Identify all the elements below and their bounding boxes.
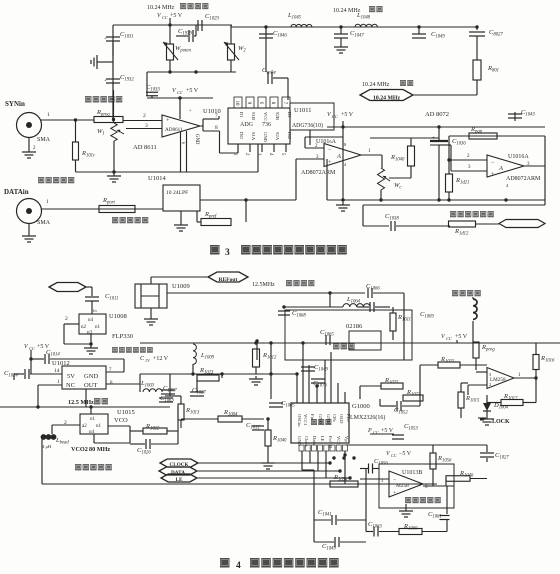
label Rpref [204, 211, 217, 220]
label Cspike [262, 67, 276, 76]
label R1060 [403, 523, 418, 532]
wire R101c bot [75, 160, 77, 172]
wire column x113 upper [113, 90, 115, 123]
pin name S2B [275, 112, 280, 120]
pin1 label data [46, 199, 49, 205]
wire loop left [362, 205, 364, 226]
wire r1014 right [242, 418, 264, 420]
LED D1004 [483, 395, 491, 416]
connector DATAin BNC [17, 199, 42, 224]
wire C8027 to R801 [476, 36, 478, 60]
wire DATA to LPF [41, 208, 163, 210]
capacitor C1024 [25, 369, 29, 379]
label C1053 [404, 423, 418, 432]
wire right col down [123, 359, 125, 372]
label 10.24MHz input [362, 82, 390, 88]
pin box 6 top [258, 97, 266, 108]
wire v5 column [342, 127, 344, 200]
pin name bottom 1 G1000 [297, 436, 302, 447]
op-amp U1016A [487, 155, 524, 178]
svg-text:5V: 5V [67, 373, 75, 380]
ground DATAin [22, 233, 36, 242]
ground fig3 left [107, 173, 121, 182]
svg-text:−5 V: −5 V [399, 451, 412, 457]
wire cluster a [366, 531, 373, 533]
label ADG 736 [240, 122, 271, 128]
wire chip bot right [344, 451, 346, 484]
wire col271 [270, 343, 272, 399]
svg-text:DATAin: DATAin [4, 188, 29, 196]
wire minus input [126, 128, 162, 130]
wire lm in2 [468, 384, 487, 386]
wire ref line a [167, 292, 365, 294]
label pin4 [344, 162, 347, 167]
wire rail above vco [0, 406, 170, 408]
wire Vcc to top rail [169, 18, 171, 25]
wire SYN gnd lead [28, 138, 30, 149]
label pin2 left [315, 144, 318, 149]
label U1014 [148, 175, 166, 182]
pin name bottom IN2 [287, 132, 292, 140]
svg-text:LE: LE [176, 477, 183, 483]
callout DATA [159, 467, 197, 476]
svg-text:REFout: REFout [219, 277, 238, 283]
svg-text:1: 1 [47, 112, 50, 118]
label raised-cosine CJK [112, 217, 148, 223]
svg-text:n2: n2 [81, 325, 87, 330]
junction cap bottom2 [447, 198, 450, 201]
junction u1008 gnd [89, 342, 92, 345]
IC U1012 body [62, 366, 106, 389]
wire C1979 drop [195, 25, 197, 36]
op-amp U1016B [324, 144, 361, 167]
capacitor C1049b [335, 537, 339, 547]
resistor R1023 [197, 375, 219, 381]
wire l1064 left col [329, 293, 331, 307]
wire u1013 out [423, 485, 454, 487]
wire r1013 top link [180, 396, 182, 404]
label phase-detector CJK [311, 419, 331, 425]
label pin8 [344, 142, 347, 147]
IC U1011 box [290, 103, 334, 130]
wire opamp gnd b [186, 131, 188, 172]
wire u1013 in [360, 478, 389, 480]
potentiometer W1 [111, 123, 117, 141]
label R1014 [223, 409, 238, 418]
pin name bottom 4 G1000 [320, 436, 325, 442]
capacitor Cspike [268, 72, 272, 84]
svg-text:02186: 02186 [346, 323, 363, 330]
label Vcc +5V lm258 [441, 334, 468, 341]
wire c1027r down [486, 458, 488, 462]
capacitor C1052 [397, 401, 401, 411]
svg-text:VCC: VCC [336, 436, 341, 445]
label C1047 [350, 30, 364, 39]
wire c1024 stub [13, 374, 15, 380]
label C1027r [495, 452, 509, 461]
pin name bottom 7 G1000 [344, 436, 349, 442]
callout blank top-left [49, 283, 86, 292]
label C1066 [366, 283, 380, 292]
wire LPF out [200, 199, 296, 201]
caption fig3 num [225, 248, 230, 258]
wire u1012 out [106, 383, 140, 385]
wire R801 to hex [413, 94, 477, 96]
wire vco top pin [90, 407, 92, 414]
wire top rail [113, 24, 196, 26]
svg-text:1: 1 [46, 199, 49, 205]
label R801 [487, 65, 499, 74]
svg-text:AD8072ARM: AD8072ARM [506, 176, 541, 182]
op-amp U1016B feedback loop [305, 137, 343, 148]
label SYNin [5, 100, 25, 108]
pin 1 label [47, 112, 50, 118]
svg-text:U1012: U1012 [52, 360, 70, 367]
label filter CJK [369, 6, 383, 12]
label U1015 [117, 409, 135, 416]
label pin7 [215, 113, 218, 119]
svg-text:12.5 MHz: 12.5 MHz [68, 399, 94, 406]
wire chip bot clock [310, 451, 330, 463]
wire row445 [346, 444, 487, 446]
svg-text:A: A [498, 165, 503, 172]
pin stub 3 bottom [256, 144, 262, 156]
label R1027 [406, 389, 421, 398]
wire left column [112, 25, 114, 120]
label pin2 vco [64, 420, 67, 426]
pin name top 7 G1000 [339, 414, 344, 424]
pin name bottom 6 G1000 [336, 436, 341, 445]
svg-text:U1011: U1011 [294, 107, 311, 114]
svg-text:GND: GND [194, 134, 199, 145]
wire long bottom fb [42, 483, 437, 485]
wire c1041 l [314, 519, 331, 521]
label W1 [97, 128, 105, 137]
svg-text:S1B: S1B [251, 112, 256, 120]
wire r1015 up [460, 383, 462, 392]
pin box 7 top [282, 97, 290, 108]
lock gnd mark [478, 418, 486, 420]
label R1012m [262, 352, 277, 361]
wire r1056 down [432, 469, 434, 486]
svg-text:GND: GND [263, 132, 268, 143]
svg-text:CC: CC [332, 114, 338, 119]
ground R1012 [249, 376, 263, 385]
pot W1 arrow [117, 130, 124, 134]
resistor R1025r [438, 362, 460, 368]
junction filter c3 [417, 25, 420, 28]
potentiometer Wpoten [163, 42, 178, 60]
svg-text:+5 V: +5 V [170, 13, 183, 19]
svg-text:2: 2 [143, 113, 146, 119]
wire input2 [449, 159, 487, 161]
label L1045 [287, 12, 302, 21]
label G1000 [352, 403, 370, 410]
capacitor C1026 [146, 439, 150, 449]
pin name top 2 G1000 [303, 414, 308, 426]
wire v5 stub [342, 121, 344, 127]
wire ref right col [403, 293, 405, 313]
wire cluster col r2 [446, 520, 448, 532]
wire c1067 right [375, 306, 390, 308]
wire chip top d [316, 386, 318, 403]
wire cluster col a [169, 374, 171, 396]
wire R1040 to wiper [389, 177, 411, 179]
ground r1040m [261, 460, 275, 469]
resistor R1021 [446, 174, 453, 192]
label R1025r [440, 356, 455, 365]
resistor Rport [99, 206, 135, 213]
svg-text:G1000: G1000 [352, 403, 370, 410]
label Wpoten [175, 45, 191, 54]
capacitor C1049f [412, 34, 426, 38]
label output bandpass CJK [112, 347, 153, 353]
wire c1056 l [360, 468, 368, 470]
junction mid374 b [220, 372, 223, 375]
junction mid rail 2 [194, 70, 197, 73]
label Cnode [0, 0, 1, 1]
svg-text:FLo: FLo [346, 414, 351, 422]
ground filter [334, 44, 348, 53]
wire right col 404 [403, 313, 405, 360]
wire bead down [41, 437, 43, 484]
label Rpqp [470, 126, 483, 135]
wire lm in3 [476, 371, 487, 373]
svg-text:LM258: LM258 [490, 377, 506, 383]
pin name top 4 G1000 [318, 414, 323, 425]
svg-text:4 μH: 4 μH [42, 444, 52, 449]
wire c1024 left [14, 373, 24, 375]
pin name bottom S1A [251, 132, 256, 141]
svg-text:S1A: S1A [251, 132, 256, 141]
svg-text:+: + [104, 79, 107, 84]
resistor Rpqp [469, 133, 497, 139]
label Rprog2 [481, 344, 495, 353]
wire Wpoten bottom [169, 60, 171, 72]
label U1008 [109, 313, 127, 320]
label DATAin [4, 188, 29, 196]
label R1017 [503, 393, 518, 402]
label U1010 [203, 108, 221, 115]
label amplifier CJK [333, 343, 355, 349]
pin name D2 [287, 112, 292, 118]
wire c1043 col [514, 112, 516, 121]
pin number strip G1000 [299, 445, 347, 451]
label D1004 [493, 402, 509, 411]
svg-text:U1010: U1010 [203, 108, 221, 115]
svg-text:OUT: OUT [84, 382, 97, 389]
svg-text:3: 3 [225, 248, 230, 258]
wire +5V top [147, 97, 213, 99]
wire data line [197, 470, 340, 472]
label Rport [102, 197, 115, 206]
junction data [338, 469, 341, 472]
wire lock col top [472, 297, 474, 299]
wire R801 down [476, 80, 478, 95]
label R1025b [384, 377, 399, 386]
svg-text:VCO: VCO [114, 417, 128, 424]
pin box 10 top [234, 97, 242, 108]
label VCO [114, 417, 128, 424]
wire fig3 left rail [76, 171, 259, 173]
svg-text:Data: Data [312, 436, 317, 445]
capacitor C1061 [440, 516, 450, 520]
wire cluster col l [365, 468, 367, 532]
capacitor C1005m [269, 403, 283, 407]
label Vcc +5V (top) [157, 13, 183, 20]
wire r1025 right [460, 364, 487, 366]
pin name top 5 G1000 [326, 414, 331, 425]
capacitor C1068 [278, 311, 290, 315]
svg-text:LE: LE [320, 436, 325, 442]
label Vcc +5V (mid) [172, 88, 199, 95]
junction chip top d [315, 384, 318, 387]
ground LPF [174, 222, 188, 231]
svg-text:n1: n1 [96, 424, 102, 429]
wire cluster link [165, 395, 181, 397]
label C1031 [120, 31, 134, 40]
wire c1033 lead [151, 96, 153, 98]
label C8027 [489, 29, 503, 38]
label C1009 [420, 311, 434, 320]
label R1046 [459, 470, 474, 479]
label AD8072ARM left [301, 170, 336, 176]
junction filter c1 [264, 25, 267, 28]
pin name bottom IN1 [239, 132, 244, 140]
pin stub 1 bottom [232, 144, 238, 156]
svg-text:U1013B: U1013B [402, 470, 422, 476]
label LOCK [492, 419, 510, 425]
junction top rail [168, 23, 171, 26]
wire r1022 right [167, 430, 178, 432]
capacitor C1041 [332, 515, 336, 525]
label +5V rotated [188, 109, 193, 112]
inductor L1003 [143, 389, 162, 392]
wire v5 lm col [456, 340, 458, 343]
resistor R1016 [533, 355, 539, 370]
label Cv +12V [140, 356, 169, 363]
wire input3 [451, 170, 487, 172]
wire u1008 left loop [64, 324, 91, 344]
label R1023 [199, 367, 214, 376]
wire r1027 col [419, 365, 421, 406]
capacitor C8027 [469, 32, 485, 36]
svg-text:OSCin: OSCin [297, 414, 302, 427]
label probe-signal-in CJK [85, 96, 122, 103]
wire rpqp rail [449, 135, 545, 137]
wire Rpref drop [245, 200, 247, 222]
wire c1979 stub [176, 35, 196, 37]
label loop filter CJK [405, 497, 441, 503]
label L1003 [140, 380, 155, 389]
IC U1009 body [135, 284, 167, 308]
wire chip bot gnd [302, 451, 314, 470]
ground SYNin [22, 149, 36, 158]
pin stub 2 bottom [244, 144, 250, 156]
label U1009 [172, 283, 190, 290]
wire rprog2 up [475, 342, 477, 343]
svg-text:VCC1: VCC1 [303, 414, 308, 426]
label C1932 [120, 74, 134, 83]
capacitor C1979 [189, 30, 193, 42]
resistor Rout [449, 221, 476, 227]
label C1043 [521, 109, 535, 118]
label R1022 [145, 423, 160, 432]
wire mid rail 374 [140, 373, 298, 375]
junction r101c top [74, 118, 77, 121]
wire r1011 up [392, 307, 394, 313]
svg-text:a2: a2 [82, 424, 87, 429]
wire loop top [363, 204, 545, 206]
wire mid rail [147, 71, 236, 73]
pin stub 4 bottom [268, 144, 274, 156]
wire r1011 down [392, 331, 394, 340]
wire r1040m up [267, 419, 269, 430]
capacitor C1056 [369, 464, 373, 474]
wire lm258 out [514, 377, 536, 379]
svg-text:+5 V: +5 V [341, 112, 354, 118]
label pin1 out [368, 149, 371, 154]
caption fig4 num [236, 561, 241, 571]
svg-text:GND: GND [318, 414, 323, 425]
wire c1052 right [402, 405, 420, 407]
resistor Rprog box [94, 117, 123, 123]
callout LE [161, 474, 197, 483]
label C1063m [160, 395, 174, 404]
label 10.24MHz amplitude control [147, 5, 175, 11]
pin stub 5 bottom [280, 144, 286, 156]
wire r1046 right [470, 478, 487, 480]
wire +12V rail [140, 342, 560, 344]
wire C1031-C1932 [112, 43, 114, 76]
capacitor C1053 [392, 435, 404, 439]
wire C1049f lead [418, 27, 420, 34]
wire r1014 left [181, 418, 218, 420]
junction lm out [534, 376, 537, 379]
label W2 [238, 45, 246, 54]
wire cap column top [438, 127, 440, 140]
label data-signal-in CJK [38, 177, 74, 183]
pin name top 8 G1000 [346, 414, 351, 422]
label U1016A [508, 154, 529, 160]
label C1049m [314, 364, 328, 373]
svg-text:1V: 1V [145, 358, 150, 363]
svg-text:P: P [367, 428, 372, 434]
capacitor C1012 [252, 426, 264, 430]
svg-text:U1008: U1008 [109, 313, 127, 320]
wire rail left drop [326, 159, 328, 200]
svg-text:S2A: S2A [275, 132, 280, 141]
junction mid374 a [191, 372, 194, 375]
wire c1049b r [340, 541, 366, 543]
wire chip gnd pin drop [257, 144, 259, 172]
wire +5V drop to opamp [179, 98, 181, 119]
wire v5 to c1014 [31, 358, 44, 360]
label pin14 [54, 368, 60, 374]
wire Rpref left [197, 221, 201, 223]
wire c1068 col down [256, 341, 258, 360]
wire C1031 lead [112, 41, 114, 56]
svg-text:10.24 MHz: 10.24 MHz [362, 82, 390, 88]
wire r1013 down [180, 420, 182, 428]
svg-text:Vp: Vp [344, 436, 349, 442]
svg-text:CPo: CPo [332, 414, 337, 423]
IC G1000 body [291, 403, 349, 443]
wire loop bottom b [396, 225, 450, 227]
label LM258 [490, 377, 506, 383]
wire R1021 bot [448, 192, 450, 200]
label pin6 out [425, 485, 428, 490]
